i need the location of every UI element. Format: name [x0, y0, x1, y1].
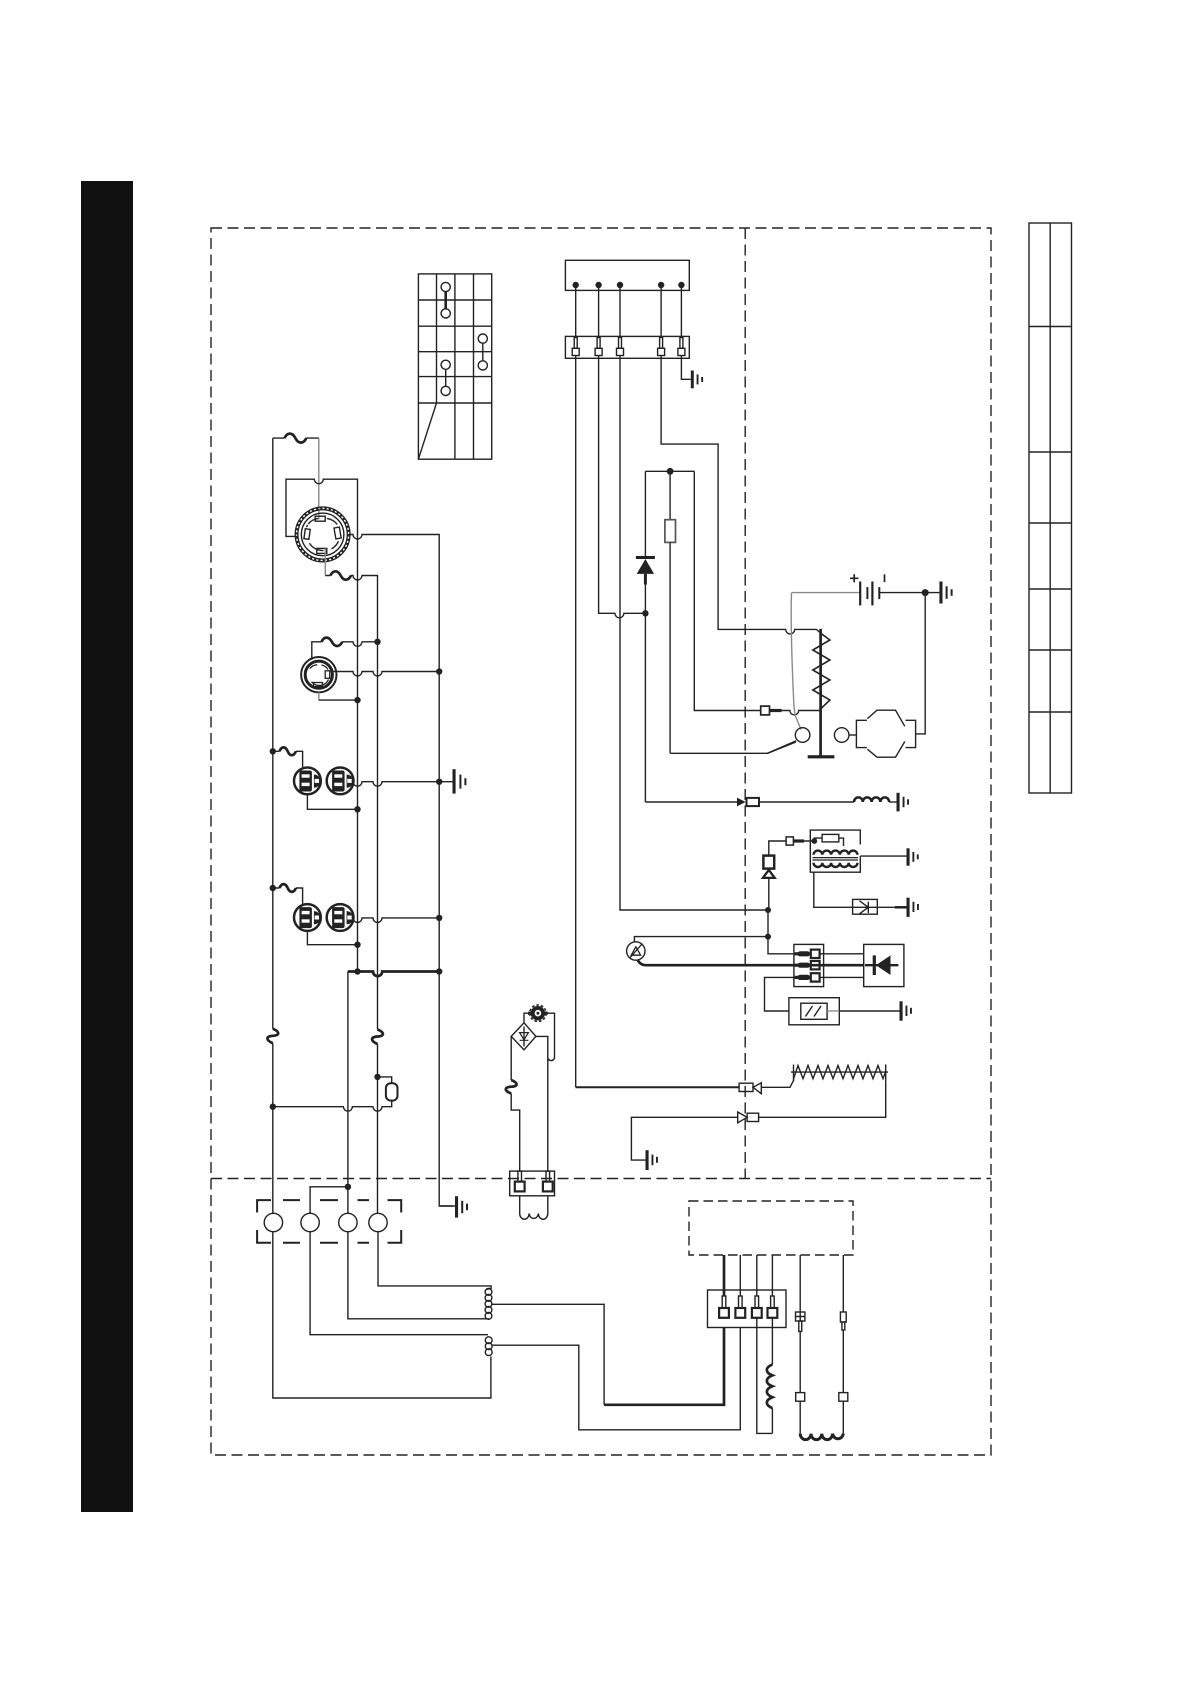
wires J1 to terminal block TB1: [576, 288, 682, 336]
junction dot R2/bus C: [436, 668, 442, 674]
wire CB2 to bus B: [325, 576, 377, 1214]
battery negative wire: [879, 592, 939, 594]
wire pin3 down: [757, 1318, 773, 1434]
coil input dot: [811, 838, 817, 844]
junction dot bus C: [436, 968, 442, 974]
kill switch S1 box: [853, 899, 878, 914]
bullet connector CN8: [738, 1112, 759, 1123]
circuit breaker CB7: [280, 884, 296, 892]
ground G7: [646, 1150, 658, 1170]
coil windings: [813, 851, 859, 867]
wire pin1 to fuel heater: [575, 356, 577, 1088]
oil sensor pigtail: [520, 1196, 548, 1219]
circuit breaker CB3: [322, 638, 343, 646]
circuit breaker CB2: [331, 571, 352, 579]
duplex DR1 bottom lead: [307, 794, 357, 809]
main feed wire left: [273, 437, 319, 439]
wire pin3 to magneto node: [620, 356, 768, 911]
connector pin CN12: [840, 1312, 846, 1330]
connector CN11: [796, 1393, 805, 1402]
remote control connector J1: [565, 260, 689, 290]
fuse FS1 (capsule): [386, 1083, 398, 1100]
wire fuse to switch arm contact: [670, 741, 796, 754]
oil module connector CN9: [510, 1171, 555, 1196]
ground G6: [900, 1001, 912, 1020]
bullet connector CN7: [739, 1083, 761, 1094]
wire kill switch to ground: [877, 906, 894, 908]
receptacle R1 bottom lead: [324, 549, 326, 576]
wire exciter bold lead to CDI: [638, 960, 864, 966]
wire CN7 to heater element: [761, 1080, 794, 1088]
pickup coil L3: [800, 1434, 843, 1440]
starter motor M1: [856, 710, 915, 757]
ground G5: [907, 898, 919, 917]
wire CN8 to ground: [631, 1117, 737, 1160]
junction dot bus A end: [354, 968, 360, 974]
receptacle R1 neutral wrap wire: [286, 479, 358, 971]
heater element HR1: [791, 1065, 888, 1081]
junction dot DR1/bus C: [436, 779, 442, 785]
wires CN6 to CDI box: [820, 954, 864, 978]
motor terminal circle: [834, 728, 849, 743]
wire terminal 3 to stator coil W1 bottom: [348, 1232, 489, 1319]
receptacle R2 right lead to bus C: [332, 672, 439, 677]
junction dot R2/bus A: [354, 697, 360, 703]
node dot: [667, 468, 674, 475]
receptacle R2 120V twistlock: [301, 657, 336, 692]
wire magneto node to connector row1: [768, 937, 797, 954]
receptacle R2 bottom lead: [318, 692, 320, 700]
receptacle R1 hot wire to bus C: [349, 535, 453, 1207]
oil sensor diode bridge DB1: [511, 1023, 548, 1061]
wire terminal 4 to stator coil W1 top: [378, 1232, 491, 1289]
legend table: [1029, 223, 1072, 793]
connector block CN6: [794, 944, 824, 986]
receptacle R1 240V twistlock: [295, 507, 350, 562]
wire node to start contact connector: [694, 471, 760, 710]
flex loop FW1: [506, 1080, 517, 1094]
fuel shutoff solenoid L1: [854, 797, 889, 802]
oil module frame wires: [524, 1013, 555, 1171]
ECU dashed box: [689, 1201, 853, 1255]
connector CN13: [839, 1393, 848, 1402]
wire pin4 to start switch: [661, 356, 822, 635]
wire feed to fuse FS1: [273, 1101, 392, 1112]
wire ECU pin5: [799, 1255, 801, 1312]
wire bus B to receptacle R2 breaker: [312, 642, 378, 660]
output terminal 4: [369, 1213, 387, 1231]
solenoid plunger wire (gray): [791, 593, 801, 730]
ignition coil T1 box: [810, 830, 860, 872]
stator main winding W1: [485, 1288, 492, 1319]
connector CN3 (start contact): [761, 706, 821, 715]
oil module left lead with flex: [511, 1036, 520, 1171]
terminal block TB1: [565, 336, 689, 358]
output terminal 1: [264, 1213, 282, 1231]
junction dot battery/starter: [922, 589, 929, 596]
magneto exciter coil E1: [627, 942, 645, 960]
battery BT1: [850, 574, 885, 605]
neutral bus bold wire: [348, 972, 439, 977]
W2 center tap wire to pin2: [492, 1328, 741, 1430]
oil level switch SW2: [528, 1005, 548, 1021]
wire neutral bus to terminal 3: [347, 972, 349, 1214]
left feed bus vertical: [272, 438, 274, 1213]
bold wire W1 tap to connector pin1: [604, 1328, 724, 1405]
spark plug connector CN5: [769, 837, 811, 856]
switch arm to fuse wire: [768, 742, 796, 753]
stator aux winding W2: [485, 1337, 492, 1356]
wire plug node down: [767, 910, 769, 937]
dashed enclosure border: [211, 228, 991, 1455]
junction dot main feed: [270, 1104, 276, 1110]
spark plug P1: [763, 856, 775, 910]
fuse F1: [665, 471, 676, 753]
circuit breaker CB4: [280, 747, 296, 755]
sidebar tab: [81, 181, 133, 1512]
wire terminal 2 to stator coil W2 top: [310, 1232, 488, 1335]
solenoid coil resistor RS1: [808, 629, 835, 759]
dashed divider horizontal: [211, 1178, 991, 1180]
wire feed into receptacle R1: [318, 438, 320, 519]
duplex receptacle DR1: [294, 768, 354, 795]
W1 center tap wire to pin1: [491, 1304, 604, 1405]
duplex receptacle DR2: [294, 904, 354, 931]
ground G8: [453, 769, 467, 793]
ground G9: [439, 1196, 468, 1217]
wire branch to terminal 2: [310, 1187, 348, 1214]
ground G3: [897, 793, 910, 812]
ground G2: [939, 582, 952, 604]
wire battery to starter motor: [916, 593, 926, 734]
coil secondary to ground wire: [860, 855, 906, 857]
CDI unit box: [864, 944, 904, 986]
wire diode node down to fuel valve row: [644, 613, 646, 802]
junction dot CB4 feed: [270, 748, 276, 754]
duplex DR2 right lead: [353, 918, 439, 923]
breaker CB6 (vertical): [372, 1030, 383, 1045]
fuel valve wire: [645, 801, 737, 803]
junction dot terminal feed: [345, 1184, 351, 1190]
wire to connector CN11: [799, 1332, 801, 1393]
output terminal 3: [339, 1213, 357, 1231]
circuit breaker CB1: [285, 434, 307, 443]
heater return wire: [759, 1080, 886, 1117]
diode D1: [636, 471, 655, 613]
wire FS1 to bus B: [378, 1077, 392, 1083]
junction dot DR2/bus A: [354, 942, 360, 948]
junction dot CB3/bus B: [374, 639, 380, 645]
junction dot magneto bus: [765, 934, 771, 940]
junction dot CB7 feed: [270, 885, 276, 891]
fuse holder FH1: [796, 1312, 805, 1332]
duplex DR2 bottom lead: [307, 931, 357, 945]
kill switch wire from coil: [814, 872, 853, 907]
wire pin1 to glow connector: [576, 1086, 740, 1088]
junction dot DR2/bus C: [436, 915, 442, 921]
terminal strip bracket: [257, 1200, 401, 1243]
switch position table: [418, 274, 491, 459]
bullet connector CN4: [737, 798, 854, 807]
pilot lamp DS1 box: [789, 998, 900, 1025]
node dot pin2/diode: [642, 610, 648, 616]
choke coil L2 on pin4: [771, 1318, 773, 1365]
junction dot DR1/bus A: [354, 806, 360, 812]
breaker CB5 (vertical): [267, 1029, 278, 1043]
duplex DR1 right lead to ground: [353, 782, 453, 787]
wire exciter top lead: [634, 937, 768, 942]
switch pivot contact: [795, 728, 810, 743]
junction dot FS1/bus B: [374, 1074, 380, 1080]
ground G4: [907, 848, 919, 865]
battery positive lead (gray): [792, 592, 861, 594]
wires ECU to CN10: [723, 1255, 726, 1296]
junction dot plug/pin3: [765, 907, 771, 913]
output terminal 2: [301, 1213, 319, 1231]
wire CN6 row3 to lamp: [765, 977, 797, 1011]
wire terminal 1 to stator coil W2: [273, 1232, 491, 1398]
node wire H (diode/fuse/switch bus): [645, 470, 694, 472]
dashed divider vertical: [744, 228, 746, 1179]
coil primary resistor R2: [822, 834, 839, 842]
wire pin2 to diode node: [599, 356, 646, 618]
wire ECU pin6: [842, 1255, 844, 1312]
ground G1 (pin5): [681, 356, 703, 389]
engine harness connector CN10: [708, 1290, 787, 1328]
